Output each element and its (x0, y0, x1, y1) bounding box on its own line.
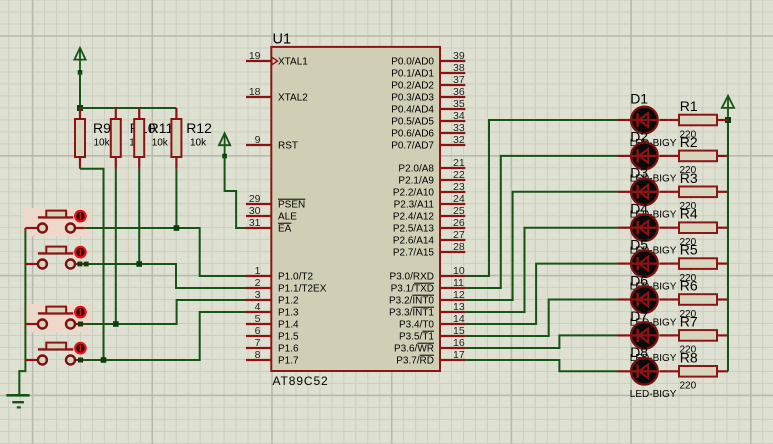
wire VCC rail for LED resistors (727, 120, 729, 371)
svg-text:P3.1/TXD: P3.1/TXD (391, 284, 434, 295)
wire P3.5 (pin 15) to LED D6 (465, 300, 617, 337)
svg-text:P1.6: P1.6 (278, 344, 299, 355)
svg-text:RST: RST (278, 141, 298, 152)
U1 pin 13 P3.3/INT1 (440, 311, 465, 313)
svg-text:R8: R8 (680, 349, 698, 365)
svg-text:8: 8 (255, 349, 261, 361)
svg-text:33: 33 (453, 122, 465, 134)
U1 pin 18 XTAL2 (246, 96, 271, 98)
svg-text:P0.4/AD4: P0.4/AD4 (391, 105, 434, 116)
svg-text:13: 13 (453, 301, 465, 313)
svg-text:10: 10 (453, 265, 465, 277)
U1 pin 2 P1.1/T2EX (246, 287, 271, 289)
U1 pin 16 P3.6/WR (440, 347, 465, 349)
push button 2 (25, 263, 38, 265)
U1 pin 11 P3.1/TXD (440, 287, 465, 289)
svg-text:19: 19 (249, 50, 261, 62)
svg-text:P2.6/A14: P2.6/A14 (393, 236, 435, 247)
svg-text:29: 29 (249, 193, 261, 205)
svg-text:21: 21 (453, 157, 465, 169)
svg-text:P0.1/AD1: P0.1/AD1 (391, 69, 434, 80)
svg-text:P0.2/AD2: P0.2/AD2 (391, 81, 434, 92)
svg-text:12: 12 (453, 289, 465, 301)
wire P3.6 (pin 16) to LED D7 (465, 335, 617, 348)
power terminal VCC (EA pin) (224, 133, 226, 156)
ground (6, 394, 29, 397)
U1 pin 9 RST (246, 144, 271, 146)
svg-text:32: 32 (453, 134, 465, 146)
svg-text:9: 9 (255, 134, 261, 146)
wire R12 tail to button row 1 (175, 169, 177, 228)
svg-text:R2: R2 (680, 134, 698, 150)
svg-text:PSEN: PSEN (278, 200, 305, 211)
svg-text:10k: 10k (190, 138, 207, 149)
svg-text:P3.6/WR: P3.6/WR (394, 344, 434, 355)
U1 pin 39 P0.0/AD0 (440, 60, 465, 62)
svg-text:P2.4/A12: P2.4/A12 (393, 212, 435, 223)
svg-text:36: 36 (453, 86, 465, 98)
svg-text:38: 38 (453, 62, 465, 74)
svg-text:P0.0/AD0: P0.0/AD0 (391, 57, 434, 68)
svg-text:39: 39 (453, 50, 465, 62)
power terminal VCC (top right) (727, 96, 729, 121)
junction R9 / row 4 (101, 357, 107, 363)
wire P3.1 (pin 11) to LED D2 (465, 156, 617, 288)
svg-text:4: 4 (255, 301, 261, 313)
svg-text:P1.4: P1.4 (278, 320, 299, 331)
junction R11 / row 2 (136, 261, 142, 267)
wire P3.3 (pin 13) to LED D4 (465, 228, 617, 312)
wire button 3 to P1.2 (row 3) (85, 300, 246, 324)
svg-text:LED-BIGY: LED-BIGY (630, 389, 677, 400)
U1 pin 30 ALE (246, 215, 271, 217)
wire R9 tail to button row 4 (80, 169, 104, 360)
U1 pin 15 P3.5/T1 (440, 335, 465, 337)
wire VCC terminal to EA pin 31 (225, 156, 246, 228)
selection highlight around button 3 (23, 304, 91, 332)
svg-text:31: 31 (249, 217, 261, 229)
svg-text:P1.1/T2EX: P1.1/T2EX (278, 284, 327, 295)
microcontroller U1 AT89C52 body (271, 47, 440, 371)
svg-text:26: 26 (453, 217, 465, 229)
svg-text:P2.1/A9: P2.1/A9 (398, 176, 434, 187)
U1 pin 19 XTAL1 (246, 60, 271, 62)
U1 pin 28 P2.7/A15 (440, 251, 465, 253)
wire pull-up top rail (80, 107, 176, 109)
svg-text:P2.0/A8: P2.0/A8 (398, 164, 434, 175)
svg-text:P3.2/INT0: P3.2/INT0 (389, 296, 434, 307)
svg-text:ALE: ALE (278, 212, 297, 223)
XTAL1 clock input mark (272, 57, 278, 65)
svg-text:16: 16 (453, 337, 465, 349)
svg-text:U1: U1 (273, 32, 292, 48)
svg-text:R6: R6 (680, 278, 698, 294)
svg-text:10k: 10k (94, 138, 111, 149)
svg-text:R12: R12 (186, 120, 212, 136)
svg-text:34: 34 (453, 110, 465, 122)
U1 pin 17 P3.7/RD (440, 359, 465, 361)
U1 pin 3 P1.2 (246, 299, 271, 301)
U1 pin 5 P1.4 (246, 323, 271, 325)
U1 pin 27 P2.6/A14 (440, 239, 465, 241)
U1 pin 29 PSEN (246, 203, 271, 205)
svg-text:P0.5/AD5: P0.5/AD5 (391, 117, 434, 128)
svg-text:XTAL1: XTAL1 (278, 57, 308, 68)
U1 pin 8 P1.7 (246, 359, 271, 361)
wire R11 tail to button row 2 (138, 169, 140, 264)
svg-text:P2.3/A11: P2.3/A11 (394, 200, 435, 211)
svg-text:P1.5: P1.5 (278, 332, 299, 343)
junction R12 / row 1 (174, 225, 180, 231)
selection highlight around button 1 (23, 208, 91, 236)
svg-text:23: 23 (453, 181, 465, 193)
svg-text:7: 7 (255, 337, 261, 349)
svg-text:P3.4/T0: P3.4/T0 (399, 320, 434, 331)
svg-text:P2.2/A10: P2.2/A10 (393, 188, 435, 199)
U1 pin 10 P3.0/RXD (440, 275, 465, 277)
U1 pin 38 P0.1/AD1 (440, 72, 465, 74)
svg-text:P1.3: P1.3 (278, 308, 299, 319)
U1 pin 33 P0.6/AD6 (440, 132, 465, 134)
wire R10 tail to button row 3 (115, 169, 117, 324)
svg-text:3: 3 (255, 289, 261, 301)
svg-text:R1: R1 (680, 98, 698, 114)
wire P3.7 (pin 17) to LED D8 (465, 360, 617, 371)
wire button 1 to P1.0 (row 1) (85, 228, 246, 276)
svg-text:10k: 10k (152, 138, 169, 149)
junction VCC rail / R1 (725, 117, 731, 123)
U1 pin 32 P0.7/AD7 (440, 144, 465, 146)
svg-text:28: 28 (453, 241, 465, 253)
push button 4 (25, 359, 38, 361)
svg-text:P3.0/RXD: P3.0/RXD (390, 272, 434, 283)
svg-text:R11: R11 (149, 120, 174, 136)
svg-text:P2.7/A15: P2.7/A15 (393, 248, 435, 259)
U1 pin 14 P3.4/T0 (440, 323, 465, 325)
svg-text:R5: R5 (680, 242, 698, 258)
svg-text:D1: D1 (630, 91, 648, 107)
svg-text:P3.3/INT1: P3.3/INT1 (389, 308, 434, 319)
U1 pin 12 P3.2/INT0 (440, 299, 465, 301)
svg-text:P0.6/AD6: P0.6/AD6 (391, 129, 434, 140)
svg-text:R7: R7 (680, 313, 698, 329)
svg-text:14: 14 (453, 313, 465, 325)
svg-text:18: 18 (249, 86, 261, 98)
U1 pin 31 EA (246, 227, 271, 229)
svg-text:R9: R9 (93, 120, 111, 136)
svg-text:6: 6 (255, 325, 261, 337)
svg-text:P1.2: P1.2 (278, 296, 299, 307)
U1 pin 1 P1.0/T2 (246, 275, 271, 277)
svg-text:37: 37 (453, 74, 465, 86)
svg-text:35: 35 (453, 98, 465, 110)
push button 1 (25, 227, 38, 229)
svg-text:15: 15 (453, 325, 465, 337)
svg-text:22: 22 (453, 169, 465, 181)
U1 pin 6 P1.5 (246, 335, 271, 337)
svg-text:24: 24 (453, 193, 465, 205)
U1 pin 22 P2.1/A9 (440, 179, 465, 181)
svg-text:5: 5 (255, 313, 261, 325)
U1 pin 26 P2.5/A13 (440, 227, 465, 229)
junction R10 / row 3 (113, 321, 119, 327)
wire button 4 to P1.3 (row 4) (85, 312, 246, 360)
svg-text:1: 1 (255, 265, 261, 277)
wire P3.0 (pin 10) to LED D1 (465, 120, 617, 276)
wire button common rail to ground (19, 228, 25, 395)
svg-text:17: 17 (453, 349, 465, 361)
svg-text:P2.5/A13: P2.5/A13 (393, 224, 435, 235)
push button 3 (25, 323, 38, 325)
svg-text:P0.3/AD3: P0.3/AD3 (391, 93, 434, 104)
U1 pin 34 P0.5/AD5 (440, 120, 465, 122)
svg-text:AT89C52: AT89C52 (273, 374, 329, 388)
svg-text:30: 30 (249, 205, 261, 217)
svg-text:P3.7/RD: P3.7/RD (396, 356, 434, 367)
svg-text:P0.7/AD7: P0.7/AD7 (391, 141, 434, 152)
svg-text:220: 220 (680, 381, 697, 392)
svg-text:27: 27 (453, 229, 465, 241)
svg-text:R3: R3 (680, 170, 698, 186)
power terminal VCC (top left) (79, 48, 81, 73)
wire VCC terminal to pull-up rail (79, 72, 81, 108)
svg-text:XTAL2: XTAL2 (278, 93, 308, 104)
svg-text:25: 25 (453, 205, 465, 217)
svg-text:P1.0/T2: P1.0/T2 (278, 272, 313, 283)
U1 pin 35 P0.4/AD4 (440, 108, 465, 110)
U1 pin 23 P2.2/A10 (440, 191, 465, 193)
svg-text:P1.7: P1.7 (278, 356, 299, 367)
U1 pin 37 P0.2/AD2 (440, 84, 465, 86)
U1 pin 36 P0.3/AD3 (440, 96, 465, 98)
U1 pin 21 P2.0/A8 (440, 167, 465, 169)
svg-text:P3.5/T1: P3.5/T1 (399, 332, 434, 343)
svg-text:2: 2 (255, 277, 261, 289)
wire P3.4 (pin 14) to LED D5 (465, 264, 617, 324)
junction at pull-up rail (77, 105, 83, 111)
svg-text:11: 11 (453, 277, 464, 289)
U1 pin 4 P1.3 (246, 311, 271, 313)
U1 pin 7 P1.6 (246, 347, 271, 349)
svg-text:R4: R4 (680, 206, 698, 222)
U1 pin 25 P2.4/A12 (440, 215, 465, 217)
wire P3.2 (pin 12) to LED D3 (465, 192, 617, 300)
svg-text:EA: EA (278, 224, 292, 235)
U1 pin 24 P2.3/A11 (440, 203, 465, 205)
wire button 2 to P1.1 (row 2) (85, 264, 246, 288)
